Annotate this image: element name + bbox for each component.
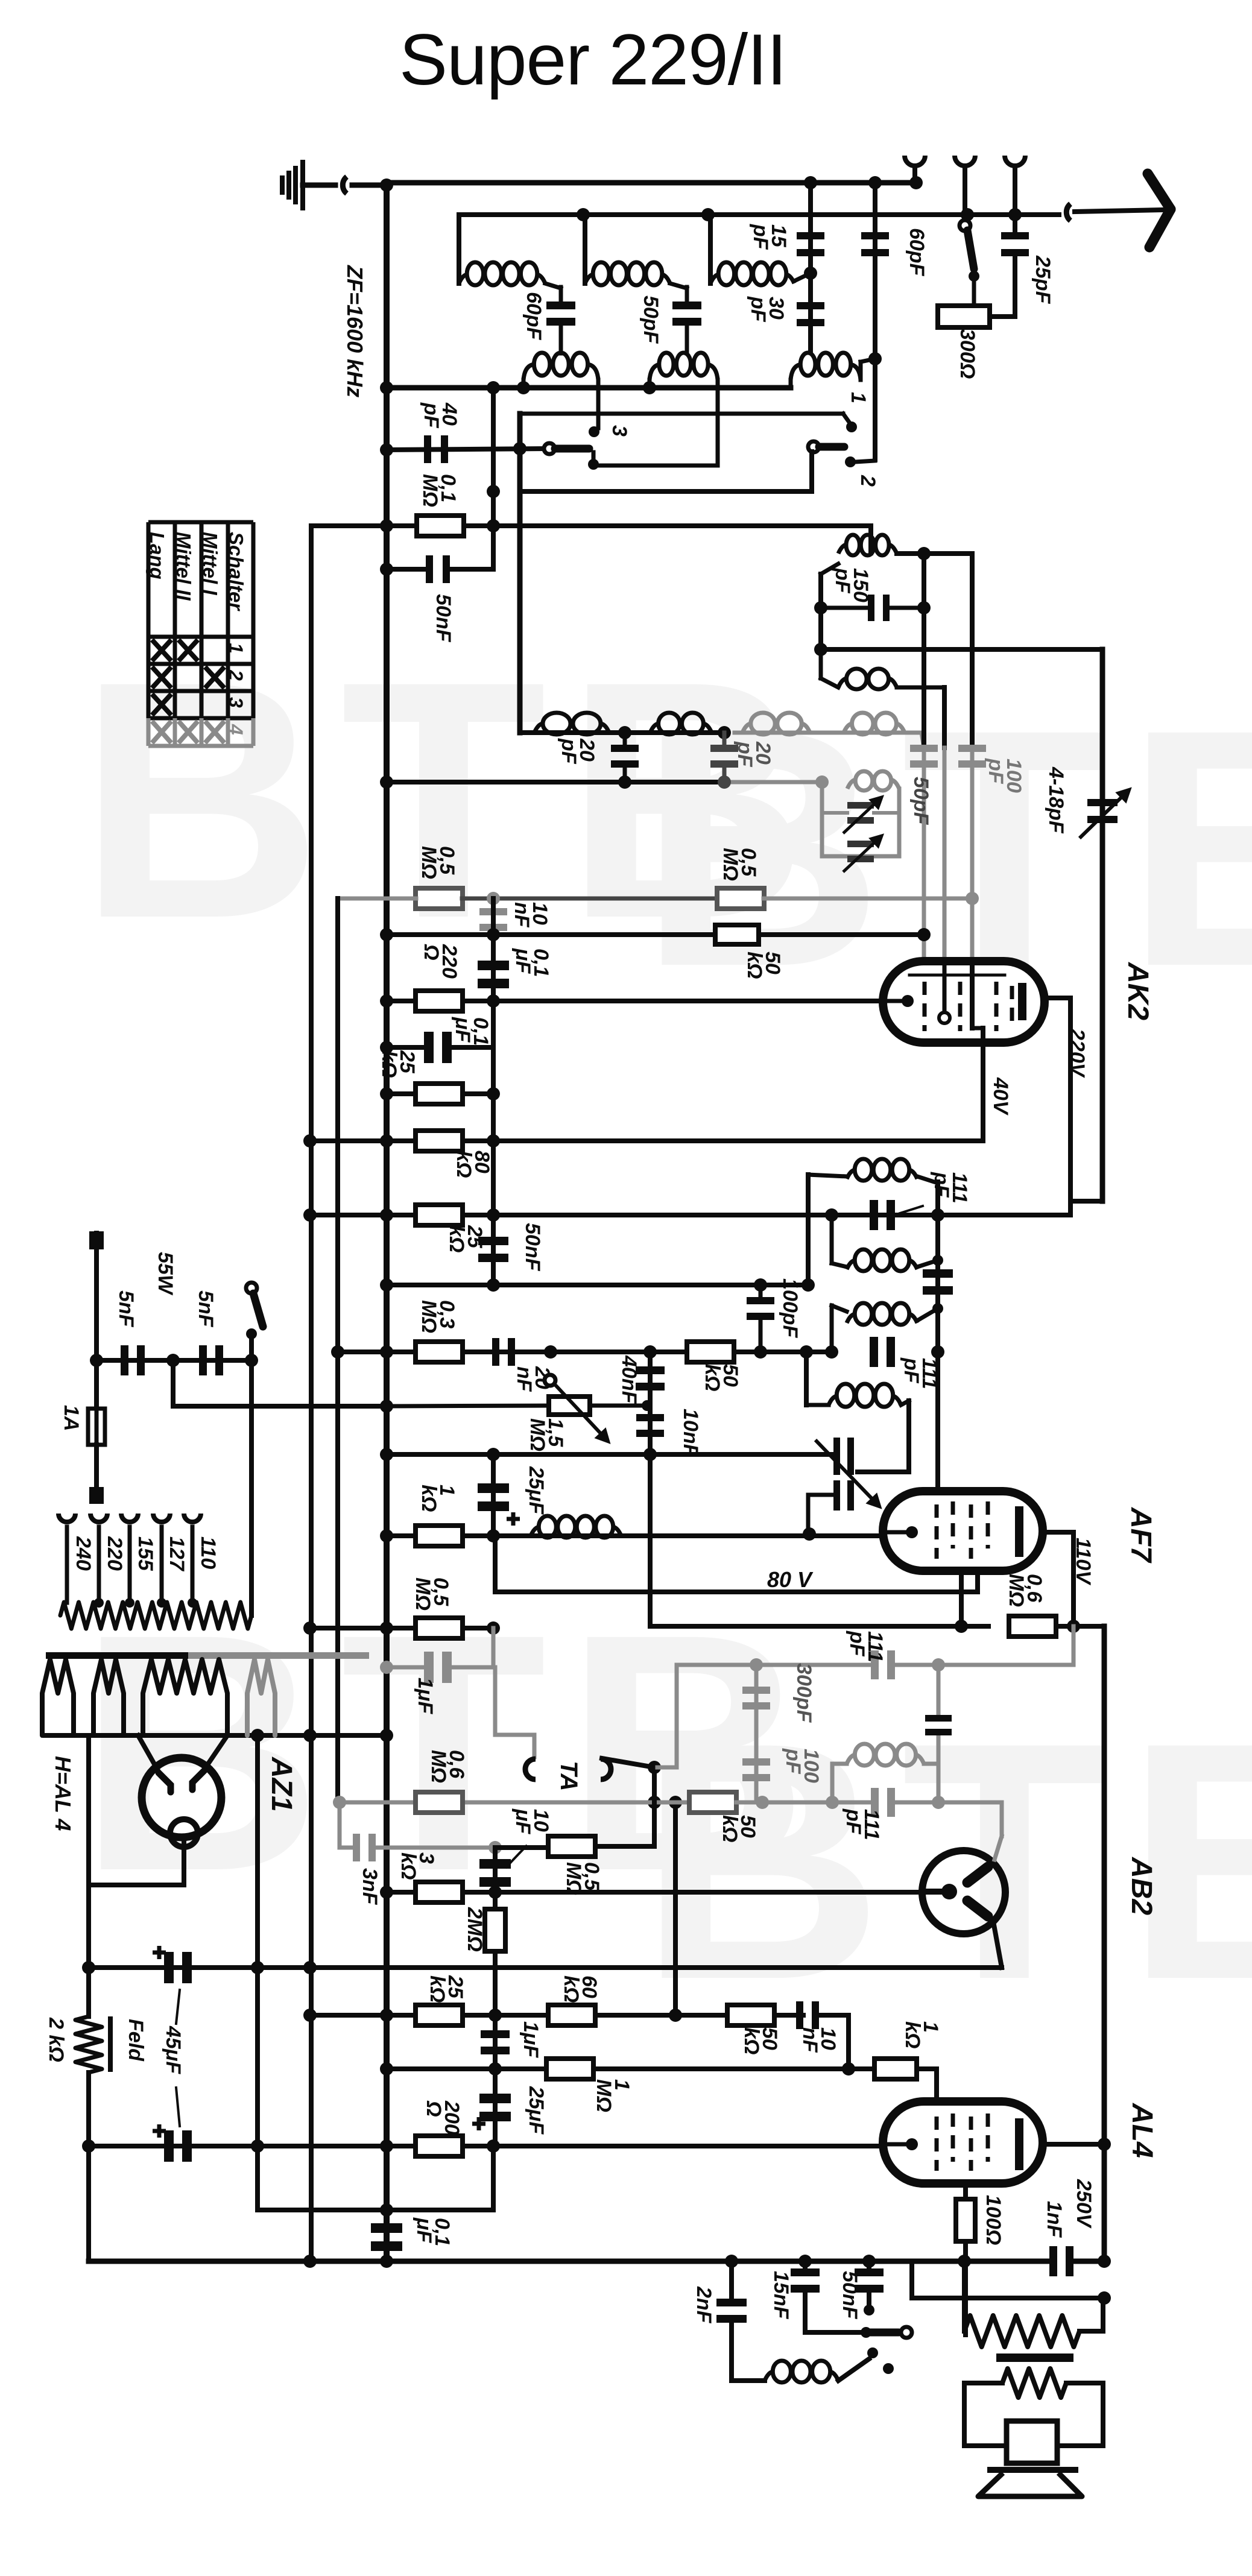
mains terminal top: [94, 1233, 99, 1360]
wire 0,6M right: [1056, 1624, 1104, 1629]
resistor 200ohm: [416, 2136, 463, 2156]
IFT1 coil1: [847, 1159, 917, 1181]
wire stub L3 up: [708, 215, 713, 283]
node 1380,2989: [826, 1796, 839, 1809]
node contact2: [845, 456, 856, 467]
wire y=1490: [338, 897, 416, 901]
wire y=1077 to right bus: [821, 647, 1102, 652]
resistor 0,5Mohm c: [416, 1618, 463, 1638]
wire y=1215 left: [520, 730, 724, 735]
tone switch lever: [866, 2329, 899, 2337]
TA jack 1: [525, 1759, 536, 1779]
svg-text:2MΩ: 2MΩ: [463, 1907, 486, 1952]
AF7 grid bottom: [959, 1571, 964, 1624]
capacitor 50pF osc: [910, 745, 938, 768]
svg-text:100pF: 100pF: [779, 1278, 801, 1338]
table X marks: [152, 640, 171, 661]
node 1361,1008: [814, 601, 827, 614]
svg-text:Feld: Feld: [124, 2019, 147, 2062]
node 147,3263: [82, 1961, 95, 1974]
node 1361,1077: [814, 643, 827, 656]
svg-text:MΩ: MΩ: [1005, 1574, 1028, 1607]
svg-text:kΩ: kΩ: [560, 1975, 583, 2003]
wire y=2131: [387, 1283, 808, 1287]
node 641,2700: [380, 1621, 393, 1635]
wire x=862: [517, 414, 523, 733]
osc block bottom: [822, 854, 899, 859]
svg-text:Super 229/II: Super 229/II: [399, 19, 786, 100]
svg-text:10nF: 10nF: [679, 1409, 702, 1457]
wire L2 right to cap: [670, 283, 687, 288]
wire 0,5Mohm b right: [764, 897, 972, 901]
node 818,2131: [487, 1278, 500, 1292]
fuse 1A: [94, 1360, 99, 1409]
svg-text:50pF: 50pF: [639, 295, 662, 344]
resistor 300ohm: [938, 306, 990, 327]
middle vertical 25uF: [491, 1454, 496, 1536]
coil L1 primary: [459, 262, 545, 285]
node 641,3665: [380, 2203, 393, 2217]
wire post sec2 left: [648, 380, 652, 388]
node 818,872: [487, 519, 500, 532]
node 984,770: [588, 459, 599, 470]
node 1532,1008: [917, 601, 931, 614]
node 164,2658: [94, 1598, 104, 1608]
resistor 0,1Mohm: [417, 516, 464, 536]
svg-text:ZF=1600 kHz: ZF=1600 kHz: [343, 265, 367, 397]
wire y=3750: [89, 2259, 1053, 2264]
wire tank bottom right: [897, 686, 944, 690]
svg-text:50pF: 50pF: [909, 777, 932, 826]
node 913,2242: [544, 1345, 557, 1359]
vertical x=427: [255, 1735, 260, 2210]
resistor 0,5Mohm a: [416, 888, 463, 909]
svg-text:220: 220: [103, 1536, 126, 1571]
svg-text:110V: 110V: [1072, 1538, 1095, 1586]
potentiometer 1,5Mohm: [549, 1397, 590, 1415]
node 1407,3431: [842, 2062, 855, 2076]
wire stub L2 up: [583, 215, 587, 283]
node 427,3263: [251, 1961, 264, 1974]
capacitor 20pF b: [722, 733, 727, 748]
vertical 1532 to AK2: [922, 554, 926, 748]
wire trimmer2 left: [808, 1493, 833, 1497]
node 1120,3342: [669, 2009, 682, 2022]
pointer 111pF a: [900, 1206, 923, 1213]
resistor 50kohm d: [689, 1792, 736, 1813]
TA jack 2: [601, 1759, 611, 1779]
node 287,2256: [166, 1354, 180, 1367]
node 641,3138: [380, 1886, 393, 1899]
osc trimmer 2: [833, 1480, 854, 1511]
wire cap to sec2: [685, 322, 689, 353]
node 1342,2544: [803, 1527, 816, 1541]
svg-text:kΩ: kΩ: [740, 2027, 763, 2054]
svg-text:pF: pF: [842, 1808, 865, 1835]
coil L2 primary: [585, 262, 670, 285]
ground hook: [343, 177, 347, 194]
wire x=1451 down: [873, 183, 877, 459]
AVC vertical x=1078: [648, 1352, 653, 1624]
wire y=3431: [387, 2066, 875, 2071]
capacitor 30pF: [797, 302, 824, 326]
wire 50kd right: [736, 1801, 832, 1805]
AZ1 exhaust tip: [170, 1819, 198, 1847]
node 1261,2242: [754, 1345, 767, 1359]
node 1519,303: [909, 176, 923, 189]
speaker bar: [987, 2467, 1078, 2473]
node 821,3431: [488, 2062, 502, 2076]
wire y=944 50nF: [387, 567, 424, 572]
wire tank bottom left: [819, 649, 823, 678]
coil L1 secondary: [523, 364, 598, 380]
capacitor 3nF: [353, 1834, 376, 1861]
watermark: [78, 611, 1252, 2050]
svg-text:3: 3: [225, 697, 247, 708]
node 1831,3750: [1098, 2255, 1111, 2268]
node 427,2878: [251, 1729, 264, 1742]
wire 1nF right: [1070, 2259, 1104, 2264]
band switch table: [148, 522, 253, 718]
capacitor 50nF top: [426, 555, 450, 583]
node 641,1814: [380, 1087, 393, 1100]
capacitor 50nF c: [867, 2261, 871, 2272]
TA jack2 wire: [602, 1758, 654, 1767]
node 641,2878: [380, 1729, 393, 1742]
plus 45uF b: [153, 2124, 166, 2138]
node 1615,458: [969, 271, 979, 282]
wire y=872 0.1Mohm row: [311, 523, 871, 528]
node 641,2332: [380, 1400, 393, 1413]
resistor 0,5Mohm d: [548, 1836, 595, 1857]
coil 150pF top: [838, 535, 897, 555]
node 1683,356: [1008, 208, 1022, 221]
wire y=2015: [310, 1213, 1070, 1217]
osc block left vertical: [820, 782, 824, 856]
svg-text:kΩ: kΩ: [452, 1151, 475, 1178]
svg-text:kΩ: kΩ: [445, 1225, 468, 1252]
capacitor 2nF: [729, 2261, 734, 2302]
wire y=356 antenna row: [459, 212, 1059, 217]
node 1436,3868: [861, 2327, 871, 2338]
node 514,2015: [303, 1208, 317, 1222]
svg-text:Mittel I: Mittel I: [199, 532, 221, 595]
svg-text:TA: TA: [555, 1761, 582, 1791]
svg-text:pF: pF: [749, 224, 772, 250]
svg-text:AL4: AL4: [1126, 2103, 1158, 2158]
node contact1: [846, 421, 857, 432]
wire 10nF to corner: [816, 2013, 849, 2018]
capacitor 25uF b: [479, 2094, 511, 2121]
middle vertical x=818: [491, 898, 496, 1285]
gray vertical 1254: [754, 1665, 759, 1802]
node 967,356: [577, 208, 590, 221]
node 1556,2761: [932, 1658, 945, 1672]
wire 147 corner: [86, 2146, 91, 2261]
svg-text:MΩ: MΩ: [417, 846, 440, 879]
speaker loop: [964, 2381, 1002, 2385]
wire ground to bus: [352, 183, 387, 188]
svg-text:pF: pF: [930, 1172, 953, 1198]
capacitor 150pF: [868, 595, 890, 621]
tube AF7: [883, 1491, 1043, 1571]
wire y=772: [593, 464, 718, 468]
node 868,643: [517, 381, 530, 394]
node 641,944: [380, 563, 393, 576]
capacitor 111pF d: [832, 1801, 874, 1805]
node 818,1660: [487, 994, 500, 1008]
plus 45uF a: [153, 1946, 166, 1959]
node 641,643: [380, 381, 393, 394]
capacitor 0,1uF a: [478, 961, 509, 988]
node 641,3750: [380, 2255, 393, 2268]
wire contact2 stub: [855, 461, 875, 462]
svg-text:μF: μF: [511, 1808, 534, 1835]
speaker cone: [978, 2473, 1082, 2496]
resistor 100ohm vert: [956, 2199, 975, 2241]
node 641,2547: [380, 1529, 393, 1542]
AL4 grid down: [963, 2183, 968, 2335]
capacitor 111pF mid: [923, 1269, 953, 1295]
capacitor 111pF b: [870, 1337, 895, 1367]
capacitor 10nF avc: [636, 1414, 664, 1437]
svg-text:pF: pF: [846, 1631, 868, 1657]
resistor 50kohm c: [687, 1342, 734, 1362]
gray drop TA: [493, 1667, 498, 1735]
svg-text:1nF: 1nF: [1043, 2201, 1066, 2238]
node 1831,3556: [1098, 2138, 1111, 2151]
antenna hook right: [1066, 204, 1070, 221]
wire x=1346 to pivot2: [809, 452, 814, 491]
ground: [280, 178, 285, 192]
left vertical x=560: [335, 898, 340, 1802]
node 641,1737: [380, 1041, 393, 1054]
osc trimmer 1: [833, 1438, 854, 1475]
capacitor 50pF tank2: [672, 301, 701, 326]
AZ1 lead left: [138, 1735, 159, 1772]
antenna socket A2: [955, 156, 975, 166]
node 417,2212: [246, 1328, 257, 1339]
resistor 50kohm b: [715, 925, 759, 944]
right bus lower: [1102, 1626, 1107, 2263]
wire y=1215 gray: [735, 731, 922, 735]
node 818,1550: [487, 928, 500, 941]
node 1085,2931: [648, 1761, 661, 1774]
node 514,3342: [303, 2009, 317, 2022]
wire pot left: [387, 1406, 549, 1406]
node 1174,356: [701, 208, 715, 221]
heater winding 2: [93, 1659, 124, 1735]
volume tap circle: [545, 1375, 555, 1386]
capacitor 20nF: [492, 1338, 515, 1366]
wire switch down: [249, 1334, 254, 1615]
wire y=872 corner down: [868, 526, 873, 553]
node 1344,453: [804, 267, 817, 280]
wire 1621 corner: [975, 1571, 980, 1592]
wire y=1737 1uF: [387, 1045, 424, 1050]
antenna socket A1: [905, 156, 925, 166]
wire lever1 down: [592, 452, 596, 466]
svg-text:220V: 220V: [1066, 1028, 1089, 1079]
svg-text:100Ω: 100Ω: [982, 2195, 1005, 2245]
node 514,1892: [303, 1134, 317, 1148]
resistor 0,5Mohm b: [717, 888, 764, 909]
wire post sec1 right: [596, 380, 601, 428]
IFT2 top cap: [937, 1665, 941, 1718]
wire 1k to AL4: [917, 2066, 937, 2071]
pointer 45uF: [176, 1990, 180, 2024]
svg-text:MΩ: MΩ: [417, 1300, 440, 1333]
svg-text:Ω: Ω: [420, 944, 443, 961]
plus 25uF b: [472, 2117, 485, 2130]
svg-text:pF: pF: [733, 741, 756, 768]
heater wire y=2878: [45, 1733, 387, 1738]
capacitor 300pF: [742, 1687, 770, 1709]
wire y=3138: [387, 1890, 922, 1895]
AZ1 internals: [159, 1770, 204, 1792]
svg-text:pF: pF: [831, 567, 854, 594]
power switch lever: [253, 1293, 263, 1327]
capacitor 0,1uF b: [424, 1032, 452, 1063]
coil BF3: [742, 713, 810, 734]
svg-text:kΩ: kΩ: [718, 1815, 741, 1842]
node 818,643: [487, 381, 500, 394]
vertical 1566 to AK2: [942, 687, 947, 748]
node 821,3064: [488, 1841, 502, 1854]
svg-text:4-18pF: 4-18pF: [1045, 766, 1067, 834]
wire osc coil left up: [804, 1352, 809, 1405]
wire pot right: [590, 1404, 647, 1408]
IFT1 left vertical: [806, 1175, 811, 1285]
capacitor 60pF antenna: [861, 232, 889, 256]
node 1555,2015: [931, 1208, 944, 1222]
svg-text:5nF: 5nF: [115, 1290, 138, 1328]
wire y=746 40pF: [387, 449, 545, 450]
node 1441,3750: [862, 2255, 876, 2268]
svg-text:25pF: 25pF: [1031, 255, 1054, 305]
wire 300ohm right: [990, 314, 1015, 319]
wire 1uF to vert: [452, 1045, 493, 1050]
capacitor 15pF: [797, 232, 824, 256]
bus vertical x=641: [384, 183, 390, 2263]
wire 3nF to resistor: [495, 1845, 546, 1850]
tone lever: [838, 2359, 869, 2381]
svg-text:kΩ: kΩ: [397, 1852, 420, 1880]
svg-text:2 kΩ: 2 kΩ: [45, 2017, 68, 2062]
node 1073,2331: [642, 1400, 653, 1411]
switch band lever2: [819, 443, 844, 451]
AB2 out: [994, 1925, 1002, 1968]
capacitor 25pF: [1001, 232, 1029, 256]
wire y=3559 to AL4: [881, 2142, 885, 2147]
resistor 2Mohm vert: [493, 1892, 498, 2015]
node 641,2412: [380, 1448, 393, 1461]
node 1201,1215: [718, 726, 731, 739]
output core bar: [996, 2353, 1073, 2362]
wire y=1660: [387, 999, 883, 1003]
wire x=1344 segment: [808, 183, 813, 351]
wire y=2242: [338, 1350, 832, 1354]
switch band pivot2: [808, 441, 819, 452]
vertical 1120 long: [673, 1802, 678, 2015]
tone coil: [732, 2378, 765, 2383]
gray wire y=2761: [677, 1663, 874, 1667]
output secondary zigzag: [1002, 2369, 1066, 2398]
capacitor 100pF b: [742, 1758, 770, 1781]
svg-text:45μF: 45μF: [162, 2025, 185, 2074]
capacitor 5nF a: [121, 1345, 145, 1375]
coil L3 primary: [710, 262, 794, 285]
svg-text:nF: nF: [513, 1366, 536, 1392]
node 1532,1550: [917, 928, 931, 941]
node 427,3559: [251, 2139, 264, 2153]
node 641,2131: [380, 1278, 393, 1292]
capacitor 5nF b: [199, 1345, 223, 1375]
osc trimmer 2: [847, 841, 874, 862]
node 1473,3928: [883, 2363, 894, 2374]
AB2 internals: [923, 1861, 994, 1922]
node 1335,3750: [798, 2255, 812, 2268]
wire gray corner to 50pF: [922, 733, 924, 748]
node 821,3342: [488, 2009, 502, 2022]
node bus-top: [380, 178, 393, 192]
switch band lever1: [555, 445, 589, 453]
coil BF2: [650, 713, 712, 734]
capacitor 0,1uF c: [371, 2223, 402, 2251]
node 1344,303: [804, 176, 817, 189]
resistor 220ohm: [416, 991, 463, 1011]
power switch pivot: [246, 1283, 257, 1293]
tube AZ1: [142, 1758, 221, 1837]
capacitor 1nF: [1049, 2246, 1073, 2276]
svg-text:25μF: 25μF: [525, 1466, 548, 1515]
AK2 internals: [887, 961, 1022, 1043]
svg-text:kΩ: kΩ: [901, 2021, 924, 2048]
svg-text:AB2: AB2: [1125, 1857, 1157, 1915]
wire y=3263: [89, 1965, 1002, 1970]
svg-text:50nF: 50nF: [838, 2271, 861, 2320]
capacitor 60pF tank1: [546, 301, 575, 326]
capacitor 1uF b: [481, 2030, 510, 2054]
speaker magnet: [1007, 2421, 1057, 2463]
node contact3 top: [589, 426, 599, 437]
IFT2 coil: [847, 1744, 924, 1766]
node 641,1550: [380, 928, 393, 941]
wire top horizontal y=303: [387, 180, 916, 186]
wire L3 right up: [794, 273, 811, 281]
wire y=686 to contact1: [520, 412, 843, 416]
resistor 25kohm a: [416, 1084, 463, 1104]
svg-text:40nF: 40nF: [618, 1355, 640, 1404]
wire y=2256: [96, 1358, 251, 1363]
osc trimmer 2 arrow: [843, 836, 882, 872]
node 1555,2090: [932, 1255, 943, 1266]
resistor 2kohm field: [75, 2016, 102, 2072]
svg-text:110: 110: [197, 1536, 220, 1569]
wire coil2 right: [917, 1260, 938, 1267]
node 560,2242: [331, 1345, 344, 1359]
wire y=2640 80V: [495, 1589, 978, 1594]
svg-text:1: 1: [847, 392, 870, 403]
svg-text:Mittel II: Mittel II: [172, 532, 195, 601]
osc trimmer arrow: [815, 1440, 879, 1506]
wire lever to 300ohm: [972, 276, 976, 309]
gray wire y=2765: [387, 1665, 424, 1670]
svg-text:55W: 55W: [154, 1252, 177, 1296]
node 1264,2989: [756, 1796, 769, 1809]
svg-text:60pF: 60pF: [522, 292, 545, 341]
gray vertical 563: [338, 1802, 342, 1848]
